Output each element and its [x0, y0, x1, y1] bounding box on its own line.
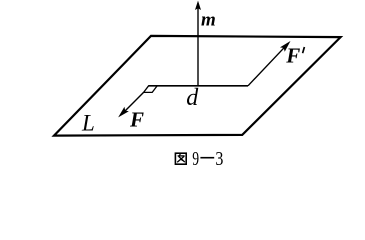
- caption hanzi TU (drawn): [175, 153, 186, 164]
- force F arrow: [122, 92, 144, 114]
- svg-text:L: L: [81, 110, 95, 135]
- moment axis m (vertical arrow): [197, 8, 199, 86]
- plane parallelogram L: [54, 36, 341, 136]
- svg-text:9: 9: [192, 148, 199, 168]
- svg-text:F: F: [129, 108, 144, 132]
- svg-text:d: d: [186, 85, 199, 111]
- svg-text:F: F: [285, 44, 300, 68]
- wire: couple arm d segment: [149, 85, 248, 87]
- svg-text:m: m: [201, 9, 216, 30]
- force F' arrow: [248, 45, 287, 86]
- right-angle mark: [144, 86, 158, 93]
- svg-text:3: 3: [215, 147, 223, 168]
